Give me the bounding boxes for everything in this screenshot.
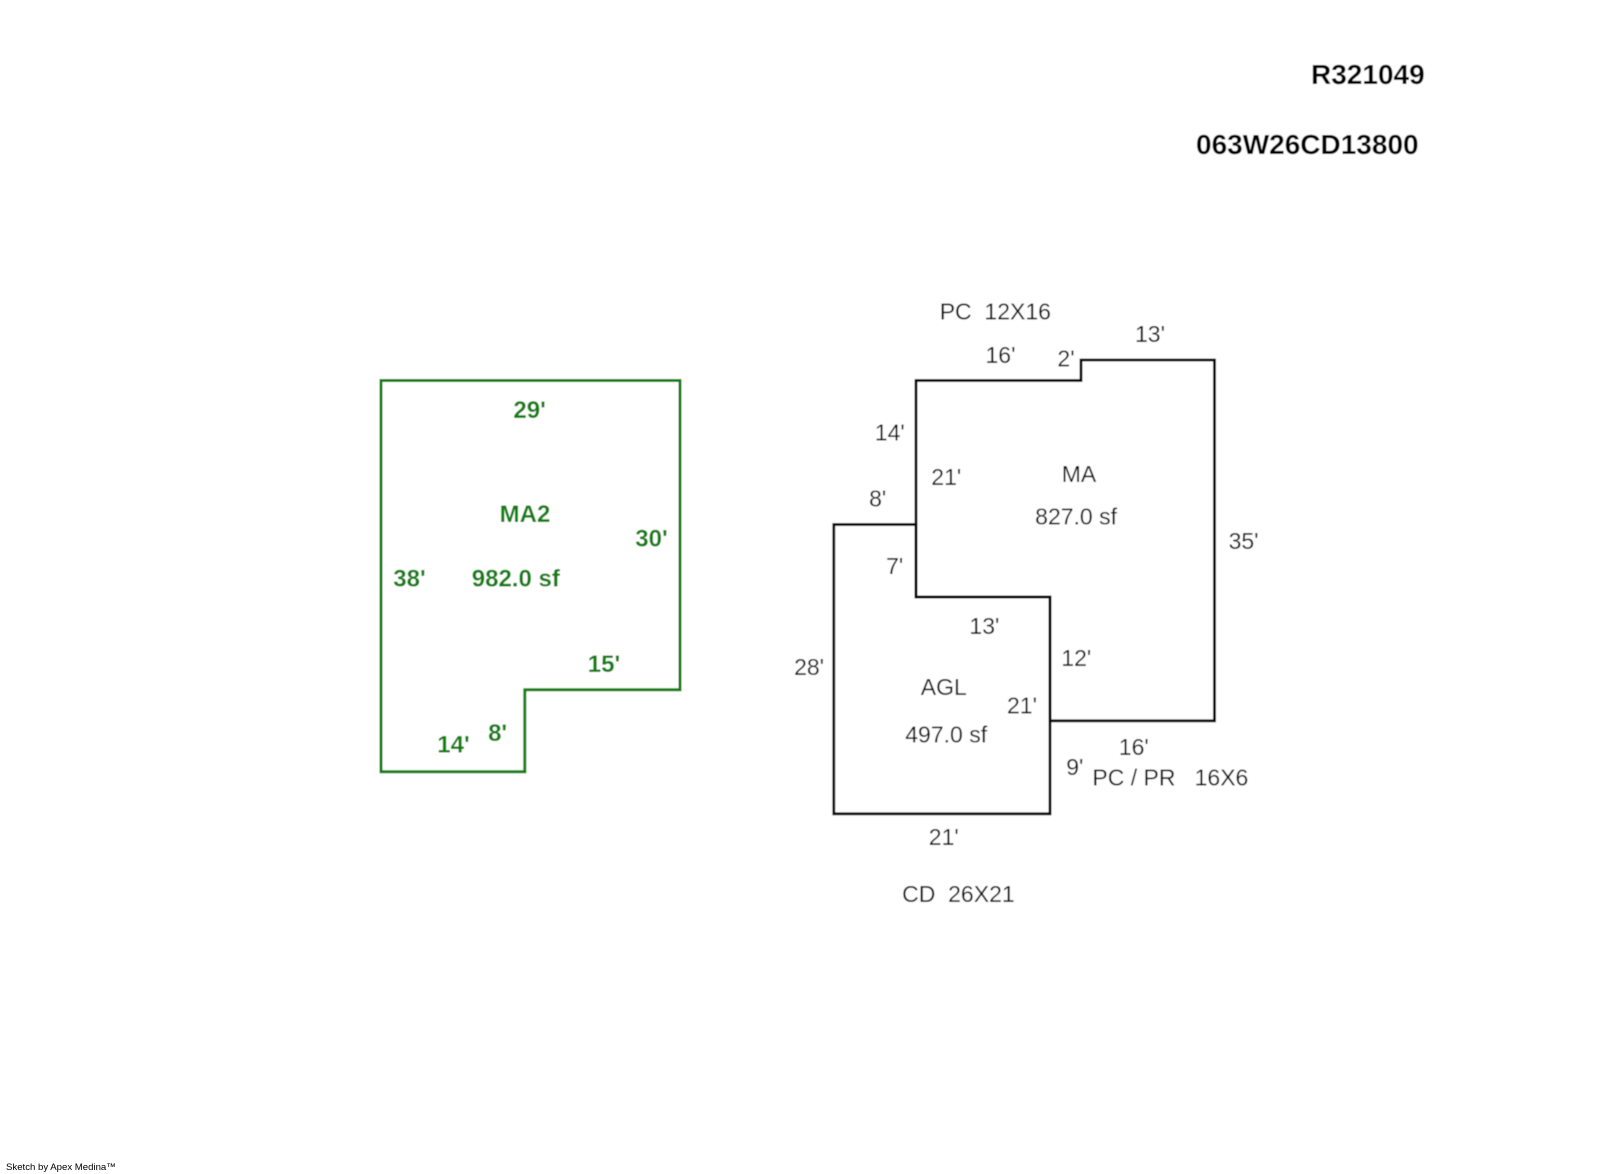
area MA outline (black polygon) [916, 360, 1215, 721]
svg-text:Sketch by Apex Medina™: Sketch by Apex Medina™ [6, 1162, 116, 1173]
svg-text:8': 8' [869, 486, 886, 512]
area AGL outline (black polygon) [834, 525, 1050, 814]
svg-text:CD 26X21: CD 26X21 [902, 881, 1015, 907]
svg-text:15': 15' [588, 651, 620, 678]
svg-text:13': 13' [969, 613, 999, 639]
svg-text:982.0 sf: 982.0 sf [472, 566, 561, 593]
svg-text:21': 21' [1007, 693, 1037, 719]
svg-text:PC / PR 16X6: PC / PR 16X6 [1092, 765, 1248, 791]
svg-text:R321049: R321049 [1311, 59, 1425, 90]
svg-text:16': 16' [1119, 734, 1149, 760]
svg-text:MA2: MA2 [500, 501, 551, 528]
svg-text:AGL: AGL [921, 674, 967, 700]
svg-text:13': 13' [1135, 321, 1165, 347]
svg-text:21': 21' [929, 824, 959, 850]
svg-text:38': 38' [393, 566, 425, 593]
svg-text:497.0 sf: 497.0 sf [905, 722, 987, 748]
svg-text:14': 14' [875, 420, 905, 446]
svg-text:063W26CD13800: 063W26CD13800 [1196, 129, 1419, 160]
svg-text:9': 9' [1066, 754, 1083, 780]
svg-text:827.0 sf: 827.0 sf [1035, 504, 1117, 530]
svg-text:MA: MA [1062, 461, 1097, 487]
svg-text:8': 8' [488, 720, 507, 747]
svg-text:35': 35' [1229, 528, 1259, 554]
area MA2 outline (green polygon) [381, 381, 680, 772]
svg-text:30': 30' [635, 526, 667, 553]
svg-text:28': 28' [794, 654, 824, 680]
svg-text:2': 2' [1057, 346, 1074, 372]
svg-text:14': 14' [437, 732, 469, 759]
svg-text:29': 29' [513, 397, 545, 424]
svg-text:16': 16' [986, 342, 1016, 368]
svg-text:12': 12' [1061, 645, 1091, 671]
svg-text:21': 21' [931, 464, 961, 490]
svg-text:7': 7' [886, 553, 903, 579]
svg-text:PC 12X16: PC 12X16 [940, 299, 1051, 325]
